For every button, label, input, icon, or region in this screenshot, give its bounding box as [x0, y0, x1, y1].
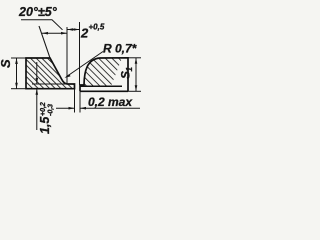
right part inner bottom line — [80, 85, 122, 87]
svg-text:S: S — [0, 59, 13, 68]
dimension S1: extension lines — [128, 57, 141, 59]
dimension S: arrows — [15, 58, 18, 64]
dimension S: extension lines — [11, 57, 26, 59]
leader of angle label — [21, 20, 63, 30]
bevel extension line — [39, 26, 50, 58]
dimension 1,5: lower segment with up arrow — [36, 89, 38, 130]
dimension S: label — [0, 59, 13, 68]
angle dimension line 20deg — [42, 32, 67, 34]
dimension S1: dim line — [135, 58, 137, 92]
vertical extension line (right, width 2) — [79, 22, 81, 85]
dimension 0,2 max: left arrow segment — [56, 107, 75, 109]
vertical reference line (left, angle + width 2) — [66, 27, 68, 84]
right part outline — [80, 58, 128, 92]
svg-text:+0,2: +0,2 — [40, 102, 47, 116]
svg-text:20°±5°: 20°±5° — [18, 5, 58, 19]
svg-text:R 0,7*: R 0,7* — [103, 42, 138, 56]
leader R0,7* — [66, 52, 103, 78]
svg-text:0,2 max: 0,2 max — [88, 95, 133, 109]
gap extension line right (down) — [79, 91, 81, 112]
gap extension line left (down) — [74, 89, 76, 113]
right part S1: hatched zone — [80, 58, 122, 86]
dimension 1,5: extension line through hatch — [32, 83, 66, 85]
svg-text:-0,3: -0,3 — [48, 104, 55, 116]
left part outline — [26, 58, 75, 89]
svg-text:1,5: 1,5 — [38, 116, 52, 134]
dimension S: dim line — [16, 58, 18, 89]
right part lip bottom line — [80, 90, 128, 92]
left part S: hatched body — [26, 58, 75, 89]
svg-text:+0,5: +0,5 — [89, 23, 105, 32]
svg-text:1: 1 — [125, 67, 134, 72]
dimension S1: arrows — [135, 58, 138, 64]
dimension S1: label — [119, 67, 135, 80]
dimension 0,2 max: right segment with arrow — [80, 107, 140, 109]
label 1,5 +0,2 -0,3 (rotated) — [38, 102, 55, 134]
dimension 2 +0.5: dim line — [67, 29, 80, 31]
dimension 1,5: upper segment with down arrow — [36, 62, 38, 84]
arrowhead R0,7* — [65, 74, 71, 78]
